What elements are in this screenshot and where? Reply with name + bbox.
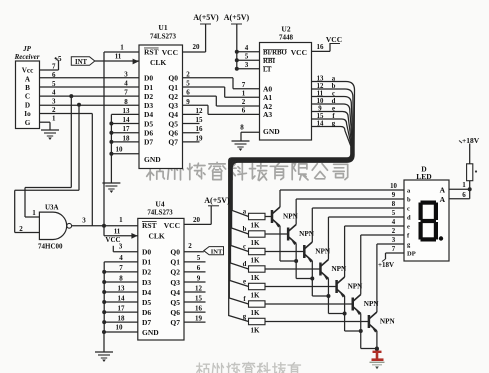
svg-text:1K: 1K: [251, 309, 261, 317]
svg-text:G: G: [25, 119, 31, 127]
svg-text:D3: D3: [144, 101, 153, 110]
svg-text:8: 8: [240, 124, 244, 132]
svg-text:Q2: Q2: [170, 268, 180, 277]
svg-text:Receiver: Receiver: [14, 53, 40, 61]
svg-text:1: 1: [242, 90, 246, 98]
svg-text:c: c: [243, 244, 246, 251]
svg-text:f: f: [243, 296, 246, 303]
svg-text:7: 7: [119, 264, 123, 272]
svg-text:12: 12: [195, 284, 203, 292]
svg-text:12: 12: [317, 83, 324, 90]
svg-text:Q6: Q6: [170, 308, 180, 317]
svg-text:6: 6: [186, 89, 190, 97]
svg-text:10: 10: [116, 146, 124, 154]
svg-text:A: A: [25, 75, 31, 83]
svg-text:7448: 7448: [279, 34, 294, 42]
svg-text:18: 18: [118, 314, 126, 322]
svg-text:GND: GND: [142, 328, 159, 337]
svg-text:5: 5: [245, 53, 249, 61]
svg-text:9: 9: [392, 192, 396, 199]
svg-text:5: 5: [186, 79, 190, 87]
svg-text:9: 9: [186, 98, 190, 106]
svg-text:1K: 1K: [251, 274, 261, 282]
svg-text:U1: U1: [158, 23, 167, 32]
svg-text:INT: INT: [75, 59, 88, 66]
svg-text:3: 3: [245, 61, 249, 69]
svg-text:D2: D2: [144, 92, 153, 101]
svg-text:6: 6: [242, 107, 246, 115]
svg-text:D6: D6: [144, 129, 153, 138]
svg-text:a: a: [243, 209, 247, 216]
svg-text:1: 1: [462, 181, 466, 189]
svg-text:9: 9: [197, 274, 201, 282]
svg-text:2: 2: [188, 242, 192, 250]
svg-text:C: C: [25, 93, 30, 101]
svg-text:8: 8: [119, 274, 123, 282]
svg-text:g: g: [332, 120, 336, 127]
svg-text:b: b: [407, 197, 411, 204]
svg-text:19: 19: [196, 134, 204, 142]
svg-text:A: A: [440, 186, 446, 195]
svg-text:GND: GND: [263, 127, 280, 136]
svg-text:13: 13: [123, 107, 131, 115]
svg-text:15: 15: [317, 113, 324, 120]
svg-text:g: g: [243, 314, 247, 321]
svg-text:Q4: Q4: [168, 110, 178, 119]
svg-text:1: 1: [120, 44, 124, 52]
svg-text:Q2: Q2: [168, 92, 178, 101]
svg-text:D3: D3: [142, 278, 151, 287]
svg-text:D1: D1: [144, 83, 153, 92]
svg-text:+18V: +18V: [378, 261, 394, 269]
svg-text:20: 20: [193, 43, 201, 51]
svg-text:D: D: [25, 101, 30, 109]
svg-text:11: 11: [317, 90, 324, 97]
svg-text:Q5: Q5: [170, 298, 180, 307]
svg-text:12: 12: [196, 107, 204, 115]
svg-text:13: 13: [317, 75, 324, 82]
svg-text:2: 2: [242, 98, 246, 106]
svg-text:U3A: U3A: [45, 204, 59, 212]
svg-text:Q7: Q7: [170, 318, 180, 327]
svg-text:14: 14: [123, 116, 131, 124]
svg-text:A(+5V): A(+5V): [224, 13, 250, 22]
svg-text:5: 5: [392, 210, 396, 217]
svg-text:Q6: Q6: [168, 129, 178, 138]
svg-text:e: e: [243, 279, 246, 286]
svg-text:1K: 1K: [251, 292, 261, 300]
svg-text:Io: Io: [24, 110, 31, 118]
svg-text:10: 10: [390, 183, 397, 190]
svg-text:1: 1: [32, 209, 36, 217]
svg-text:D5: D5: [142, 298, 151, 307]
svg-text:4: 4: [52, 89, 56, 97]
svg-text:2: 2: [392, 228, 396, 235]
svg-text:3: 3: [82, 217, 86, 225]
svg-text:14: 14: [118, 294, 126, 302]
svg-text:7: 7: [124, 89, 128, 97]
svg-text:Q7: Q7: [168, 138, 178, 147]
svg-text:16: 16: [195, 304, 203, 312]
svg-text:Vcc: Vcc: [22, 67, 34, 75]
svg-text:D1: D1: [142, 258, 151, 267]
svg-text:e: e: [332, 105, 335, 112]
svg-text:3: 3: [52, 97, 56, 105]
svg-text:13: 13: [118, 284, 126, 292]
svg-text:VCC: VCC: [162, 48, 178, 57]
svg-text:d: d: [332, 98, 336, 105]
svg-text:11: 11: [115, 53, 122, 61]
svg-text:Q3: Q3: [168, 101, 178, 110]
svg-text:BI/RBO: BI/RBO: [263, 49, 287, 56]
svg-text:6: 6: [197, 264, 201, 272]
svg-text:2: 2: [186, 70, 190, 78]
svg-text:d: d: [407, 215, 411, 222]
svg-text:4: 4: [124, 79, 128, 87]
svg-text:U2: U2: [281, 25, 290, 34]
svg-text:7: 7: [392, 246, 396, 253]
svg-text:4: 4: [392, 219, 396, 226]
svg-text:d: d: [243, 261, 247, 268]
svg-text:A: A: [440, 195, 446, 204]
svg-text:1K: 1K: [251, 222, 261, 230]
svg-text:19: 19: [195, 314, 203, 322]
svg-text:e: e: [407, 224, 410, 231]
svg-text:74LS273: 74LS273: [147, 210, 173, 217]
svg-text:D2: D2: [142, 268, 151, 277]
svg-text:b: b: [332, 83, 336, 90]
svg-text:7: 7: [52, 63, 56, 71]
svg-text:9: 9: [318, 105, 322, 112]
svg-text:2: 2: [52, 106, 56, 114]
svg-text:VCC: VCC: [291, 48, 307, 57]
svg-text:a: a: [332, 75, 336, 82]
svg-text:15: 15: [195, 294, 203, 302]
svg-text:4: 4: [119, 254, 123, 262]
svg-text:D4: D4: [142, 288, 151, 297]
svg-text:16: 16: [317, 43, 325, 51]
svg-text:2: 2: [19, 225, 23, 233]
svg-text:Q0: Q0: [170, 248, 180, 257]
svg-text:74LS273: 74LS273: [150, 33, 177, 41]
svg-text:18: 18: [123, 134, 131, 142]
svg-text:4: 4: [245, 44, 249, 52]
svg-text:Q5: Q5: [168, 119, 178, 128]
svg-text:Q3: Q3: [170, 278, 180, 287]
svg-text:DP: DP: [407, 251, 416, 258]
svg-text:D4: D4: [144, 110, 153, 119]
svg-text:INT: INT: [211, 248, 223, 255]
svg-text:D0: D0: [142, 248, 151, 257]
svg-text:b: b: [243, 226, 247, 233]
svg-text:Q0: Q0: [168, 74, 178, 83]
svg-text:A1: A1: [263, 93, 272, 102]
svg-text:8: 8: [124, 98, 128, 106]
svg-text:D0: D0: [144, 74, 153, 83]
svg-text:17: 17: [118, 304, 126, 312]
svg-text:RBI: RBI: [263, 58, 275, 65]
svg-text:A(+5V): A(+5V): [204, 196, 230, 205]
svg-text:Q4: Q4: [170, 288, 180, 297]
svg-text:U4: U4: [155, 200, 164, 209]
svg-text:10: 10: [317, 98, 324, 105]
svg-text:15: 15: [196, 116, 204, 124]
svg-text:+5: +5: [54, 55, 62, 63]
svg-text:3: 3: [392, 237, 396, 244]
svg-text:LT: LT: [263, 66, 272, 73]
svg-text:VCC: VCC: [164, 221, 180, 230]
svg-text:1K: 1K: [251, 239, 261, 247]
svg-text:11: 11: [114, 228, 121, 236]
svg-text:c: c: [332, 90, 335, 97]
svg-text:1: 1: [119, 216, 123, 224]
svg-text:NPN: NPN: [380, 318, 396, 326]
svg-text:c: c: [407, 206, 410, 213]
svg-text:10: 10: [116, 324, 124, 332]
svg-text:D6: D6: [142, 308, 151, 317]
svg-text:8: 8: [392, 201, 396, 208]
svg-text:VCC: VCC: [326, 35, 342, 44]
svg-text:B: B: [25, 84, 30, 92]
svg-text:D5: D5: [144, 119, 153, 128]
svg-text:6: 6: [462, 191, 466, 199]
svg-text:A(+5V): A(+5V): [193, 13, 219, 22]
svg-text:D7: D7: [142, 318, 151, 327]
svg-text:+18V: +18V: [462, 136, 480, 145]
svg-text:CLK: CLK: [149, 232, 165, 241]
svg-text:3: 3: [119, 243, 123, 251]
svg-text:RST: RST: [142, 221, 157, 230]
svg-text:D7: D7: [144, 138, 153, 147]
svg-text:CLK: CLK: [150, 58, 166, 67]
svg-text:1K: 1K: [251, 327, 261, 335]
svg-text:Q1: Q1: [170, 258, 180, 267]
svg-text:A3: A3: [263, 110, 272, 119]
svg-text:7: 7: [242, 81, 246, 89]
svg-text:1K: 1K: [251, 257, 261, 265]
svg-text:74HC00: 74HC00: [38, 243, 63, 251]
svg-text:3: 3: [124, 70, 128, 78]
svg-text:5: 5: [197, 254, 201, 262]
svg-text:Q1: Q1: [168, 83, 178, 92]
svg-text:20: 20: [193, 216, 201, 224]
svg-text:14: 14: [317, 120, 324, 127]
svg-text:1: 1: [52, 115, 56, 123]
svg-text:17: 17: [123, 125, 131, 133]
svg-text:16: 16: [196, 125, 204, 133]
svg-text:GND: GND: [144, 155, 161, 164]
svg-text:JP: JP: [22, 45, 32, 53]
svg-text:RST: RST: [144, 48, 159, 57]
svg-text:LED: LED: [416, 172, 432, 181]
